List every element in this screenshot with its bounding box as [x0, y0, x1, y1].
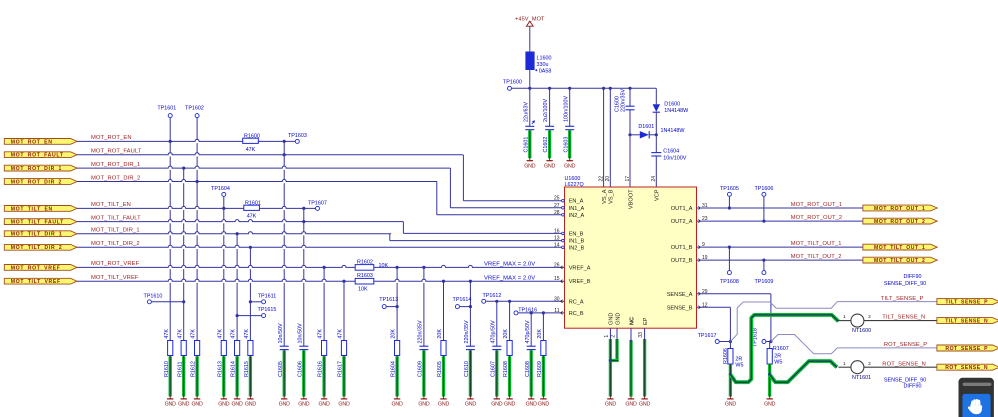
svg-text:VS_A: VS_A — [602, 189, 608, 204]
svg-text:GND: GND — [764, 402, 776, 408]
svg-text:0A58: 0A58 — [539, 68, 552, 74]
svg-text:L6227Q: L6227Q — [565, 182, 584, 188]
svg-text:47K: 47K — [318, 329, 324, 339]
svg-text:EP: EP — [643, 317, 649, 325]
svg-text:MOT_ROT_DIR_1: MOT_ROT_DIR_1 — [11, 166, 62, 172]
svg-text:MOT_ROT_FAULT: MOT_ROT_FAULT — [91, 149, 142, 155]
svg-text:2: 2 — [868, 361, 871, 367]
svg-text:SENSE_A: SENSE_A — [667, 292, 693, 298]
svg-text:47K: 47K — [246, 147, 256, 153]
svg-text:GND: GND — [418, 402, 430, 408]
svg-text:DIFF90: DIFF90 — [904, 274, 922, 280]
svg-text:VS_B: VS_B — [609, 189, 615, 204]
svg-text:R1602: R1602 — [357, 260, 373, 266]
svg-text:33: 33 — [638, 332, 644, 338]
svg-text:1: 1 — [604, 335, 610, 338]
svg-text:TP1613: TP1613 — [379, 297, 398, 303]
svg-text:MOT_TILT_DIR_1: MOT_TILT_DIR_1 — [11, 232, 63, 238]
svg-text:NT1600: NT1600 — [852, 328, 871, 334]
svg-text:SENSE_DIFF_90: SENSE_DIFF_90 — [884, 377, 926, 383]
svg-text:EN_B: EN_B — [569, 231, 584, 237]
svg-text:MOT_ROT_VREF: MOT_ROT_VREF — [91, 261, 140, 267]
svg-text:GND: GND — [564, 164, 576, 170]
svg-text:OUT2_A: OUT2_A — [671, 219, 693, 225]
svg-text:MOT_TILT_EN: MOT_TILT_EN — [11, 206, 53, 212]
svg-text:RC_A: RC_A — [569, 299, 584, 305]
svg-text:TP1607: TP1607 — [308, 200, 327, 206]
svg-text:GND: GND — [538, 402, 550, 408]
svg-text:MOT_TILT_OUT_2: MOT_TILT_OUT_2 — [791, 254, 842, 260]
svg-text:TP1603: TP1603 — [288, 133, 307, 139]
svg-text:24: 24 — [651, 176, 657, 182]
svg-text:28: 28 — [554, 210, 560, 216]
svg-text:17: 17 — [625, 176, 631, 182]
svg-text:MOT_TILT_EN: MOT_TILT_EN — [91, 202, 131, 208]
svg-text:2: 2 — [868, 314, 871, 320]
svg-text:20K: 20K — [537, 329, 543, 339]
svg-text:MOT_ROT_OUT_2: MOT_ROT_OUT_2 — [791, 215, 843, 221]
svg-text:MOT_ROT_OUT_2: MOT_ROT_OUT_2 — [874, 219, 925, 225]
svg-text:VREF_MAX = 2.0V: VREF_MAX = 2.0V — [484, 262, 535, 268]
svg-text:10n/100V: 10n/100V — [663, 155, 686, 161]
svg-text:27: 27 — [554, 203, 560, 209]
svg-text:GND: GND — [165, 402, 177, 408]
svg-text:VREF_A: VREF_A — [569, 265, 591, 271]
svg-text:GND: GND — [491, 402, 503, 408]
svg-text:VREF_MAX = 2.0V: VREF_MAX = 2.0V — [484, 275, 535, 281]
svg-text:W5: W5 — [735, 363, 743, 369]
svg-text:GND: GND — [609, 313, 615, 325]
svg-text:TILT_SENSE_P: TILT_SENSE_P — [881, 296, 924, 302]
svg-text:MOT_TILT_VREF: MOT_TILT_VREF — [11, 279, 61, 285]
svg-text:1: 1 — [843, 361, 846, 367]
svg-text:10K: 10K — [379, 263, 389, 269]
svg-text:ROT_SENSE_N: ROT_SENSE_N — [945, 365, 988, 371]
svg-text:GND: GND — [504, 402, 516, 408]
svg-text:ROT_SENSE_P: ROT_SENSE_P — [945, 346, 988, 352]
svg-text:GND: GND — [438, 402, 450, 408]
svg-text:GND: GND — [218, 402, 230, 408]
svg-text:TP1606: TP1606 — [754, 186, 773, 192]
svg-text:DIFF90: DIFF90 — [904, 384, 922, 390]
svg-text:IN1_B: IN1_B — [569, 239, 585, 245]
svg-text:MOT_ROT_OUT_1: MOT_ROT_OUT_1 — [791, 202, 843, 208]
svg-text:TP1614: TP1614 — [453, 297, 472, 303]
svg-text:MOT_TILT_DIR_2: MOT_TILT_DIR_2 — [11, 245, 63, 251]
svg-text:22: 22 — [598, 176, 604, 182]
svg-text:GND: GND — [392, 402, 404, 408]
svg-text:MOT_ROT_OUT_1: MOT_ROT_OUT_1 — [874, 206, 925, 212]
svg-text:47K: 47K — [231, 329, 237, 339]
svg-text:R1607: R1607 — [773, 346, 789, 352]
svg-text:TP1611: TP1611 — [258, 293, 276, 299]
svg-text:47K: 47K — [244, 329, 250, 339]
svg-text:470p/50V: 470p/50V — [490, 320, 496, 343]
svg-text:MOT_TILT_OUT_1: MOT_TILT_OUT_1 — [874, 245, 925, 251]
svg-text:GND: GND — [245, 402, 257, 408]
svg-text:GND: GND — [298, 402, 310, 408]
svg-text:MOT_TILT_FAULT: MOT_TILT_FAULT — [11, 220, 64, 226]
svg-text:VREF_B: VREF_B — [569, 279, 591, 285]
svg-text:R1606: R1606 — [723, 348, 729, 364]
svg-text:D1601: D1601 — [638, 124, 654, 130]
svg-text:GND: GND — [338, 402, 350, 408]
svg-text:MOT_ROT_EN: MOT_ROT_EN — [11, 139, 53, 145]
svg-text:TP1601: TP1601 — [157, 106, 176, 112]
svg-text:L1600: L1600 — [537, 55, 552, 61]
svg-text:NT1601: NT1601 — [852, 375, 871, 381]
svg-text:MOT_ROT_DIR_1: MOT_ROT_DIR_1 — [91, 162, 140, 168]
svg-text:W5: W5 — [774, 360, 782, 366]
svg-text:330u: 330u — [537, 62, 549, 68]
svg-text:47K: 47K — [177, 329, 183, 339]
svg-text:2u2/100V: 2u2/100V — [543, 99, 549, 122]
svg-text:25: 25 — [554, 196, 560, 202]
svg-text:11: 11 — [554, 308, 559, 314]
svg-text:47K: 47K — [191, 329, 197, 339]
svg-text:TP1616: TP1616 — [518, 307, 537, 313]
svg-text:TILT_SENSE_N: TILT_SENSE_N — [945, 319, 988, 325]
svg-text:TP1617: TP1617 — [698, 333, 717, 339]
svg-text:10K: 10K — [358, 286, 368, 292]
svg-text:220n/35V: 220n/35V — [418, 320, 424, 343]
svg-text:26: 26 — [554, 262, 560, 268]
svg-text:IN1_A: IN1_A — [569, 206, 585, 212]
svg-text:GND: GND — [192, 402, 204, 408]
svg-text:OUT1_A: OUT1_A — [671, 206, 693, 212]
svg-text:2: 2 — [611, 335, 617, 338]
svg-text:TP1609: TP1609 — [754, 279, 773, 285]
svg-text:470p/50V: 470p/50V — [525, 320, 531, 343]
svg-text:20K: 20K — [503, 329, 509, 339]
svg-text:ROT_SENSE_N: ROT_SENSE_N — [882, 361, 926, 367]
svg-text:TP1612: TP1612 — [483, 293, 502, 299]
svg-text:R1601: R1601 — [245, 201, 261, 207]
svg-text:47K: 47K — [247, 214, 257, 220]
svg-text:R1600: R1600 — [244, 133, 260, 139]
svg-text:MOT_TILT_OUT_1: MOT_TILT_OUT_1 — [791, 241, 842, 247]
svg-text:MOT_TILT_DIR_1: MOT_TILT_DIR_1 — [91, 228, 140, 234]
svg-text:30: 30 — [554, 296, 560, 302]
svg-text:GND: GND — [524, 164, 536, 170]
svg-text:OUT2_B: OUT2_B — [671, 258, 693, 264]
svg-text:GND: GND — [639, 402, 651, 408]
svg-text:14: 14 — [554, 242, 560, 248]
svg-text:MOT_TILT_FAULT: MOT_TILT_FAULT — [91, 215, 141, 221]
svg-text:2R: 2R — [735, 357, 742, 363]
svg-text:IN2_B: IN2_B — [569, 245, 585, 251]
svg-text:16: 16 — [554, 228, 560, 234]
svg-text:20K: 20K — [391, 329, 397, 339]
svg-text:MOT_ROT_VREF: MOT_ROT_VREF — [11, 265, 61, 271]
svg-text:220n/35V: 220n/35V — [464, 320, 470, 343]
svg-text:EN_A: EN_A — [569, 199, 584, 205]
svg-text:SENSE_B: SENSE_B — [667, 305, 693, 311]
svg-text:SENSE_DIFF_90: SENSE_DIFF_90 — [884, 281, 926, 287]
svg-text:IN2_A: IN2_A — [569, 213, 585, 219]
svg-text:TP1618: TP1618 — [753, 328, 759, 347]
svg-text:GND: GND — [178, 402, 190, 408]
svg-text:MOT_ROT_EN: MOT_ROT_EN — [91, 135, 132, 141]
svg-text:GND: GND — [279, 402, 291, 408]
svg-text:TP1605: TP1605 — [720, 186, 739, 192]
svg-text:GND: GND — [725, 402, 737, 408]
svg-text:MOT_TILT_OUT_2: MOT_TILT_OUT_2 — [874, 258, 925, 264]
svg-text:47K: 47K — [164, 329, 170, 339]
svg-text:TILT_SENSE_N: TILT_SENSE_N — [882, 314, 925, 320]
svg-text:MOT_ROT_DIR_2: MOT_ROT_DIR_2 — [91, 175, 140, 181]
svg-text:MOT_ROT_FAULT: MOT_ROT_FAULT — [11, 153, 64, 159]
svg-text:NC: NC — [629, 317, 635, 325]
svg-text:ROT_SENSE_P: ROT_SENSE_P — [884, 342, 927, 348]
svg-text:GND: GND — [232, 402, 244, 408]
svg-text:VCP: VCP — [655, 189, 661, 201]
svg-text:MOT_TILT_VREF: MOT_TILT_VREF — [91, 275, 139, 281]
svg-text:TP1610: TP1610 — [144, 293, 163, 299]
svg-text:GND: GND — [544, 164, 556, 170]
svg-text:TP1602: TP1602 — [185, 106, 204, 112]
svg-text:TP1608: TP1608 — [720, 279, 739, 285]
svg-text:1: 1 — [843, 314, 846, 320]
svg-text:MOT_ROT_DIR_2: MOT_ROT_DIR_2 — [11, 179, 62, 185]
svg-text:GND: GND — [319, 402, 331, 408]
svg-text:1N4148W: 1N4148W — [661, 128, 686, 134]
svg-text:GND: GND — [615, 313, 621, 325]
svg-text:R1603: R1603 — [357, 273, 373, 279]
svg-text:13: 13 — [554, 236, 560, 242]
svg-text:47K: 47K — [338, 329, 344, 339]
svg-text:10n/50V: 10n/50V — [278, 323, 284, 343]
svg-text:MOT_TILT_DIR_2: MOT_TILT_DIR_2 — [91, 241, 140, 247]
svg-text:D1600: D1600 — [664, 102, 680, 108]
svg-text:C1604: C1604 — [663, 149, 679, 155]
svg-text:220n/35V: 220n/35V — [620, 89, 626, 112]
svg-text:OUT1_B: OUT1_B — [671, 245, 693, 251]
svg-text:20K: 20K — [437, 329, 443, 339]
svg-text:GND: GND — [526, 402, 538, 408]
svg-text:RC_B: RC_B — [569, 311, 584, 317]
svg-text:VBOOT: VBOOT — [628, 189, 634, 209]
svg-text:20: 20 — [605, 176, 611, 182]
svg-text:22u/63V: 22u/63V — [523, 102, 529, 122]
svg-text:GND: GND — [625, 402, 637, 408]
svg-text:100n/100V: 100n/100V — [563, 96, 569, 122]
svg-text:47K: 47K — [217, 329, 223, 339]
svg-text:2R: 2R — [774, 353, 781, 359]
svg-text:GND: GND — [605, 402, 617, 408]
svg-text:TP1600: TP1600 — [503, 80, 522, 86]
svg-text:TP1615: TP1615 — [258, 307, 277, 313]
svg-text:10n/50V: 10n/50V — [297, 323, 303, 343]
svg-text:TILT_SENSE_P: TILT_SENSE_P — [945, 300, 988, 306]
svg-text:15: 15 — [554, 276, 560, 282]
svg-text:TP1604: TP1604 — [211, 186, 230, 192]
svg-text:GND: GND — [465, 402, 477, 408]
svg-text:1N4148W: 1N4148W — [664, 108, 689, 114]
